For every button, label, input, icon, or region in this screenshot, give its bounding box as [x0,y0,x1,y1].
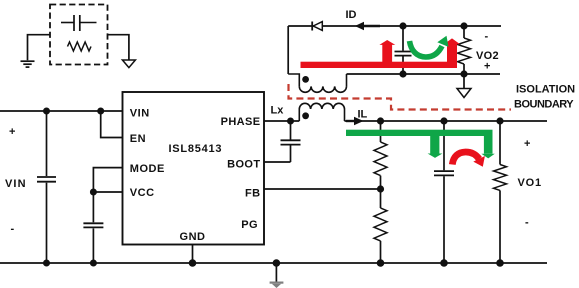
node CO2 bottom [399,70,406,77]
wire VIN rail (input to VIN pin) [0,110,123,112]
label VO1 [518,138,542,229]
node PHASE / boot cap [287,118,294,125]
resistor R1 (FB divider top) [374,121,387,189]
wire BOOT pin [264,161,291,163]
svg-text:VIN: VIN [5,178,27,190]
resistor RO2 (VO2 load) [458,26,471,74]
svg-text:BOOT: BOOT [227,159,260,171]
svg-text:PG: PG [241,219,258,231]
capacitor C-iso (isolation model) [61,15,97,31]
earth ground (primary side of isolation model) [21,61,35,67]
node RO2 bottom [460,70,467,77]
node system ground [273,259,281,267]
node RO1 top [496,117,503,124]
svg-text:+: + [9,126,15,138]
capacitor CO1 [434,121,454,263]
node FB [377,185,384,192]
node CO2 top [399,22,406,29]
node EN branch [97,108,104,115]
wire phase node to output network [345,120,548,122]
wire MODE pin to VCC [93,168,122,192]
svg-text:-: - [485,31,489,43]
IC U1 ISL85413 body [123,92,265,245]
svg-text:-: - [11,223,15,235]
isolated ground triangle (VO2) [457,74,471,98]
capacitor CVCC [83,192,103,263]
current arrow ID [346,9,381,30]
chassis ground triangle (secondary side of isolation model) [122,60,135,68]
capacitor CBOOT [281,121,301,162]
svg-text:EN: EN [130,133,146,145]
label VO2 [476,31,499,73]
node VCC [90,189,97,196]
isolation boundary dashed line [289,84,576,111]
secondary polarity dot [302,76,309,83]
wire GND pin [192,245,194,264]
svg-text:FB: FB [245,188,260,200]
red charging current path (secondary side) [301,38,461,68]
node input cap top [43,108,50,115]
green ripple arrow (secondary side) [410,36,449,57]
signal ground symbol (gray) [270,263,284,288]
svg-text:VCC: VCC [130,187,155,199]
wire left of isolation box [28,35,51,61]
wire secondary bottom [347,73,501,75]
green inductor current path (primary side) [346,130,495,159]
label VIN source [5,126,27,235]
primary polarity dot [302,112,309,119]
node CO1 bottom [440,259,448,267]
isolation model dashed box [50,5,108,65]
node GND [189,259,197,267]
capacitor CO2 [395,26,412,74]
capacitor CIN [37,111,56,263]
transformer T1 secondary winding [288,74,346,92]
label Lx [271,105,285,117]
node FB divider top [377,117,384,124]
wire secondary left riser [287,26,289,74]
svg-text:ISOLATION: ISOLATION [516,84,575,96]
svg-text:-: - [525,217,529,229]
svg-text:PHASE: PHASE [221,116,261,128]
node R2 bottom [377,259,385,267]
svg-text:MODE: MODE [130,163,165,175]
node CO1 top [440,117,447,124]
wire ground rail (bottom) [0,262,547,264]
svg-text:Lx: Lx [271,105,285,117]
resistor R2 (FB divider bottom) [374,189,387,263]
wire FB pin [264,188,381,190]
resistor R-iso (isolation model) [68,42,92,51]
wire secondary top (diode wire) [288,25,501,27]
node VCC cap bottom [90,260,97,267]
svg-text:IL: IL [358,109,368,121]
svg-text:VO1: VO1 [518,177,542,189]
node input cap bottom [43,260,50,267]
svg-text:BOUNDARY: BOUNDARY [514,99,574,111]
node RO2 top [460,22,467,29]
transformer T1 primary winding Lx [299,103,344,121]
svg-text:+: + [524,138,530,150]
svg-text:+: + [484,61,490,73]
svg-text:VIN: VIN [130,108,150,120]
wire VCC pin [93,191,122,193]
resistor RO1 (VO1 load) [494,121,507,263]
wire right of isolation box [108,35,129,60]
svg-text:ISL85413: ISL85413 [169,143,223,155]
red ripple arrow (primary side) [452,152,485,167]
svg-text:GND: GND [180,231,206,243]
diode D1 [312,22,322,31]
svg-text:ID: ID [346,9,357,21]
node RO1 bottom [496,259,504,267]
wire EN pin [101,111,123,138]
wire PHASE pin [264,120,299,122]
current arrow IL [346,109,368,126]
